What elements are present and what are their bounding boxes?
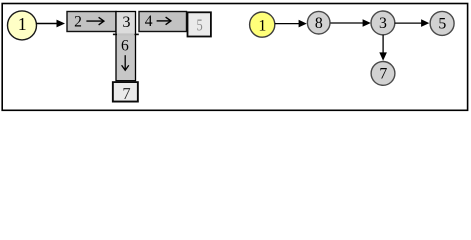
arrow 1 to 8: [275, 20, 307, 28]
svg-text:1: 1: [18, 14, 27, 34]
node 3: [371, 11, 395, 35]
arrow head to box 2: [36, 20, 65, 28]
svg-text:5: 5: [197, 17, 203, 35]
svg-text:6: 6: [121, 38, 129, 55]
box 4: [139, 12, 187, 32]
svg-text:7: 7: [379, 66, 387, 83]
box 5 (new node): [187, 11, 212, 37]
node 5: [430, 11, 454, 35]
node 1 (right): [250, 12, 275, 37]
box 7 (new node): [112, 81, 139, 103]
svg-text:4: 4: [145, 13, 153, 30]
node 8: [307, 11, 330, 34]
svg-text:1: 1: [258, 17, 266, 34]
node 7: [371, 62, 395, 86]
node 1 (left list head): [8, 11, 37, 40]
arrow 3 to 7: [379, 35, 387, 61]
svg-text:3: 3: [379, 15, 387, 32]
arrow 3 to 5: [395, 19, 430, 27]
arrow 8 to 3: [331, 19, 371, 27]
cell 6: [113, 34, 139, 81]
svg-text:3: 3: [122, 13, 130, 31]
svg-text:2: 2: [74, 13, 82, 30]
svg-text:5: 5: [438, 16, 446, 33]
box 2: [67, 12, 116, 32]
box 3: [116, 12, 136, 35]
svg-text:7: 7: [122, 84, 130, 103]
svg-text:8: 8: [315, 15, 323, 32]
